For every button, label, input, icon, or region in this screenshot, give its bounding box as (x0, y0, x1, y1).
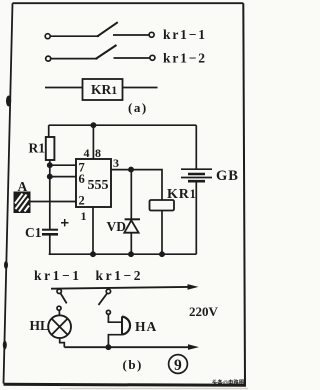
wire pin 6 (50, 176, 76, 178)
figure number 9 (169, 355, 188, 374)
svg-text:6: 6 (79, 172, 85, 186)
switch kr1-1 (45, 22, 154, 39)
wire (a) left (45, 87, 83, 89)
svg-text:220V: 220V (189, 304, 219, 319)
wire pin 1 to bottom rail (92, 207, 94, 254)
wire phase line with arrow (51, 284, 199, 290)
svg-text:头条@电路图: 头条@电路图 (212, 379, 245, 387)
svg-text:kr1−1: kr1−1 (163, 27, 205, 42)
svg-text:8: 8 (95, 146, 101, 160)
wire right rail upper (195, 125, 197, 169)
svg-text:A: A (18, 179, 28, 194)
svg-text:C1: C1 (25, 225, 42, 240)
capacitor C1 (42, 219, 69, 234)
junction node VD top (129, 168, 133, 172)
switch kr1-2 (b) (99, 288, 111, 314)
wire touch plate to pin 2 (30, 201, 77, 203)
svg-text:2: 2 (79, 194, 85, 208)
wire neutral line with arrow (64, 344, 199, 350)
svg-text:9: 9 (174, 357, 182, 374)
junction node pin1 bottom (91, 252, 95, 256)
relay coil box KR1 (a) (83, 79, 123, 100)
switch kr1-2 (46, 45, 155, 61)
junction node VD bottom (129, 252, 133, 256)
lamp HL (48, 315, 71, 347)
svg-text:1: 1 (81, 209, 87, 223)
junction node pin6 (48, 175, 52, 179)
wire top rail (49, 124, 197, 126)
wire pin 7 (50, 164, 76, 166)
svg-text:kr1−1: kr1−1 (34, 268, 79, 283)
wire bottom rail (49, 253, 197, 255)
svg-text:KR1: KR1 (91, 82, 117, 97)
wire left rail upper (48, 125, 50, 137)
touch plate A (15, 193, 30, 213)
wire pin 3 (111, 170, 162, 200)
svg-text:3: 3 (113, 156, 119, 170)
svg-text:HA: HA (135, 319, 157, 334)
junction node top rail (91, 123, 95, 127)
resistor R1 (46, 137, 55, 160)
svg-text:VD: VD (107, 219, 127, 234)
junction node KR1 bottom (160, 252, 164, 256)
border frame (page) (3, 3, 246, 385)
svg-text:4: 4 (84, 146, 90, 160)
wire right rail lower (195, 181, 197, 254)
junction node below R1 (48, 163, 52, 167)
svg-text:(b): (b) (123, 357, 143, 372)
wire left rail mid (49, 160, 51, 229)
switch kr1-1 (b) (57, 289, 67, 316)
wire pins 4,8 to top rail (92, 125, 94, 159)
svg-text:HL: HL (30, 318, 50, 333)
svg-text:kr1−2: kr1−2 (96, 268, 141, 283)
svg-text:(a): (a) (128, 100, 148, 115)
svg-text:555: 555 (88, 178, 109, 193)
svg-text:R1: R1 (29, 141, 46, 156)
battery GB (181, 169, 212, 181)
svg-text:KR1: KR1 (167, 187, 197, 202)
relay coil KR1 (150, 200, 175, 254)
svg-text:kr1−2: kr1−2 (163, 51, 205, 66)
wire (a) right (123, 87, 158, 89)
sounder HA (108, 314, 130, 347)
IC 555 (76, 159, 111, 208)
svg-text:GB: GB (216, 168, 239, 184)
diode VD (124, 170, 140, 255)
wire C1 to bottom rail (49, 234, 51, 254)
